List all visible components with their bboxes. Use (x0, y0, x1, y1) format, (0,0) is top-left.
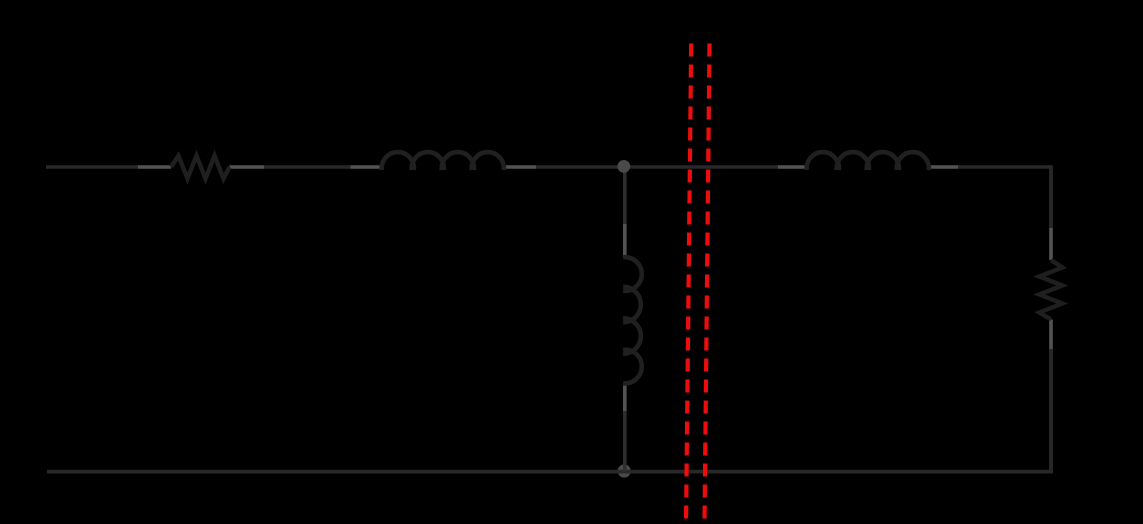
inductor L2 (shunt, vertical) (623, 224, 642, 411)
inductor L1 (series, horizontal) (351, 152, 537, 170)
wire right vertical lower (1049, 349, 1053, 472)
wire right vertical upper (1049, 165, 1053, 228)
wire between L3 and top-right corner (958, 165, 1051, 168)
node B (bottom junction, under wires) (618, 464, 631, 477)
wire top-left segment (46, 165, 138, 168)
wire middle vertical lower (L2 down to node B) (623, 411, 627, 472)
resistor R1 (series, horizontal) (138, 156, 264, 179)
wire middle vertical upper (node A down to L2) (623, 167, 627, 224)
node A (top junction dot) (617, 160, 630, 173)
resistor R2 (load, vertical) (1039, 228, 1062, 349)
cut line 2 (right red dashed) (705, 44, 710, 524)
cut line 1 (left red dashed) (686, 44, 691, 524)
wire between L1 and node A (536, 165, 778, 168)
inductor L3 (series, horizontal, right of cut) (778, 152, 958, 170)
wire bottom rail (47, 470, 1053, 474)
wire between R1 and L1 (264, 165, 351, 168)
